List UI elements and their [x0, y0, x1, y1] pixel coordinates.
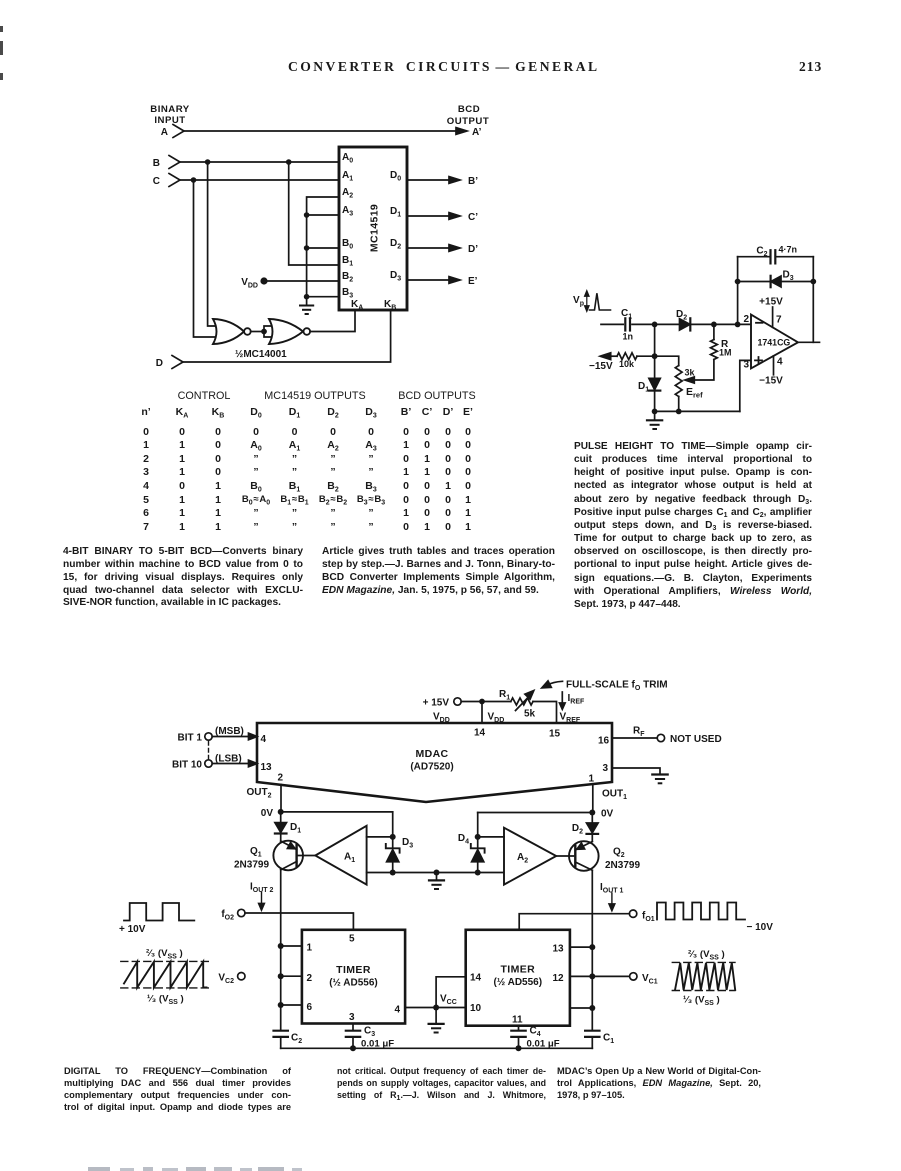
- label IOUT2: [250, 882, 274, 911]
- svg-text:A2: A2: [342, 187, 353, 200]
- svg-text:INPUT: INPUT: [154, 115, 185, 126]
- svg-text:D1: D1: [390, 206, 401, 219]
- svg-text:D3: D3: [402, 837, 413, 850]
- svg-text:A’: A’: [472, 127, 482, 138]
- wire pin 14 to VCC: [436, 977, 466, 1008]
- svg-text:Q2: Q2: [613, 847, 625, 860]
- IC U2 MDAC AD7520: [257, 723, 612, 802]
- svg-text:OUT1: OUT1: [602, 789, 627, 802]
- svg-text:4: 4: [395, 1005, 401, 1016]
- svg-text:fO1: fO1: [642, 911, 655, 924]
- feedback right vertical wire: [812, 257, 814, 343]
- svg-text:½MC14001: ½MC14001: [235, 349, 287, 360]
- terminal +15V: [423, 698, 462, 709]
- IC U4 TIMER 1/2 AD556: [466, 930, 570, 1026]
- node 0V right: [589, 809, 613, 820]
- wire pin 1 to 0V node: [592, 784, 594, 813]
- svg-text:11: 11: [512, 1015, 523, 1026]
- terminal BIT 10: [172, 760, 212, 771]
- waveform sawtooth VC2: [121, 961, 210, 988]
- capacitor C2: [274, 1031, 303, 1049]
- wire timer2 output to fO1: [519, 914, 629, 930]
- wire BIT10 to pin 13: [212, 760, 257, 767]
- wire B3 pin: [304, 294, 339, 300]
- op-amp U1 1741CG: [751, 315, 798, 369]
- terminal fO1: [629, 910, 654, 923]
- wire B vertical to gate input: [208, 162, 220, 326]
- feedback top wire: [738, 256, 814, 258]
- svg-text:BCD: BCD: [458, 104, 480, 115]
- wire 0V right to D4 branch: [478, 812, 593, 814]
- pin 6: [281, 1002, 313, 1013]
- svg-text:(MSB): (MSB): [215, 726, 244, 737]
- wire pin 3 to ground: [612, 768, 660, 774]
- +15V supply: [759, 297, 783, 328]
- capacitor C1 1n: [621, 308, 633, 342]
- -15V supply: [759, 356, 783, 387]
- svg-text:RF: RF: [633, 726, 645, 739]
- svg-text:4·7n: 4·7n: [779, 245, 798, 255]
- svg-text:1741CG: 1741CG: [758, 338, 791, 348]
- svg-text:NOT USED: NOT USED: [670, 734, 722, 745]
- svg-text:IREF: IREF: [568, 693, 586, 706]
- ground symbol: [300, 297, 313, 314]
- capacitor C1: [585, 1031, 614, 1049]
- svg-text:OUTPUT: OUTPUT: [447, 116, 489, 127]
- wire pin 2 to 0V node: [280, 785, 282, 812]
- wire A1 lower input / gnd bus: [367, 870, 504, 876]
- NOR gate G2: [269, 319, 310, 344]
- svg-text:10k: 10k: [619, 359, 635, 369]
- wire B to A0 pin: [180, 161, 339, 163]
- svg-text:D3: D3: [783, 270, 794, 283]
- svg-text:TIMER: TIMER: [500, 964, 535, 976]
- svg-text:2N3799: 2N3799: [234, 860, 269, 871]
- schematic: digital to frequency converter: [110, 660, 800, 1060]
- label BCD OUTPUT: [447, 104, 489, 127]
- bottom rail: [281, 1047, 593, 1049]
- ground symbol VCC: [429, 1008, 444, 1033]
- junction dot on D1 branch: [652, 353, 658, 359]
- svg-text:2: 2: [307, 973, 313, 984]
- schematic: pulse height to time opamp circuit: [560, 230, 845, 445]
- wire B to B1 pin: [289, 162, 339, 265]
- svg-text:VDD: VDD: [488, 712, 505, 725]
- wire C vertical to gate input: [194, 180, 221, 337]
- svg-text:2N3799: 2N3799: [605, 860, 640, 871]
- svg-text:C1: C1: [621, 308, 632, 321]
- terminal BIT 1: [178, 733, 213, 744]
- VDD terminal: [241, 277, 267, 290]
- label IOUT1: [600, 882, 624, 911]
- svg-text:C3: C3: [364, 1026, 375, 1039]
- lower right pin wire: [570, 1007, 592, 1009]
- svg-text:− 10V: − 10V: [747, 922, 774, 933]
- svg-text:13: 13: [261, 762, 273, 773]
- wire BIT1 to pin 4: [212, 733, 257, 740]
- svg-text:¹⁄₃ (VSS ): ¹⁄₃ (VSS ): [147, 994, 184, 1007]
- svg-text:+15V: +15V: [759, 297, 783, 308]
- op-amp A2: [504, 828, 556, 885]
- input terminal B: [153, 156, 180, 170]
- svg-text:¹⁄₃ (VSS ): ¹⁄₃ (VSS ): [683, 995, 720, 1008]
- svg-text:VC1: VC1: [642, 973, 658, 986]
- svg-text:BIT 1: BIT 1: [178, 733, 203, 744]
- svg-text:5k: 5k: [524, 709, 536, 720]
- feedback diode wire: [735, 279, 817, 285]
- terminal VC2: [218, 973, 245, 986]
- svg-text:TIMER: TIMER: [336, 964, 371, 976]
- terminal VC1: [592, 973, 657, 986]
- svg-text:C4: C4: [530, 1026, 541, 1039]
- svg-text:VC2: VC2: [218, 973, 234, 986]
- input terminal A: [161, 125, 184, 139]
- svg-text:VDD: VDD: [241, 277, 258, 290]
- pin 12: [553, 973, 593, 984]
- svg-text:13: 13: [553, 944, 565, 955]
- wire A3 pin: [304, 212, 339, 218]
- resistor R 1M: [711, 324, 732, 359]
- junction node D1 tap: [652, 322, 658, 328]
- wire Q1 base to A1: [298, 855, 315, 857]
- svg-text:D2: D2: [390, 238, 401, 251]
- svg-text:(½ AD556): (½ AD556): [494, 977, 543, 988]
- wire node to D1: [654, 324, 656, 378]
- svg-text:VCC: VCC: [440, 994, 457, 1007]
- svg-text:3k: 3k: [685, 368, 696, 378]
- potentiometer R1 5k: [499, 689, 536, 720]
- svg-text:²⁄₃ (VSS ): ²⁄₃ (VSS ): [688, 949, 725, 962]
- svg-text:(AD7520): (AD7520): [410, 762, 453, 773]
- transistor Q1 2N3799: [234, 841, 303, 871]
- svg-text:VREF: VREF: [560, 712, 581, 725]
- svg-text:D4: D4: [458, 833, 469, 846]
- svg-text:B: B: [153, 158, 160, 169]
- svg-text:4: 4: [777, 357, 783, 368]
- terminal fO2: [221, 909, 245, 922]
- ground symbol pin 3: [652, 775, 667, 784]
- svg-text:C: C: [153, 176, 160, 187]
- svg-text:D3: D3: [390, 270, 401, 283]
- svg-text:4: 4: [261, 734, 267, 745]
- svg-text:15: 15: [549, 729, 561, 740]
- svg-text:0V: 0V: [601, 809, 614, 820]
- diode D2: [572, 813, 598, 842]
- svg-text:D0: D0: [390, 170, 401, 183]
- svg-text:B0: B0: [342, 238, 353, 251]
- caption: pulse height to time, right column: [574, 440, 812, 611]
- wire R to pot wiper arrow: [685, 360, 714, 384]
- wire D1 output: [407, 212, 478, 223]
- svg-text:+ 10V: + 10V: [119, 924, 146, 935]
- svg-text:Vp: Vp: [573, 295, 584, 308]
- svg-text:MC14519: MC14519: [369, 204, 381, 252]
- junction node R tap: [711, 322, 717, 328]
- wire A to A': [184, 130, 456, 132]
- svg-text:+ 15V: + 15V: [423, 698, 450, 709]
- svg-text:16: 16: [598, 736, 610, 747]
- svg-text:OUT2: OUT2: [247, 787, 272, 800]
- svg-text:2: 2: [278, 773, 284, 784]
- svg-text:MDAC: MDAC: [415, 748, 448, 760]
- scan edge artifact marks on left margin: [0, 26, 3, 32]
- diode D1: [275, 812, 301, 841]
- wire G1 to G2: [251, 326, 272, 337]
- svg-text:(½ AD556): (½ AD556): [329, 978, 378, 989]
- pin 1: [281, 943, 313, 954]
- svg-text:FULL-SCALE fO TRIM: FULL-SCALE fO TRIM: [566, 680, 668, 693]
- svg-text:3: 3: [603, 763, 609, 774]
- svg-text:C1: C1: [603, 1033, 614, 1046]
- svg-text:C2: C2: [291, 1033, 302, 1046]
- svg-text:VDD: VDD: [433, 712, 450, 725]
- pin 2 OUT2: [247, 773, 284, 800]
- pin 11: [512, 1015, 523, 1030]
- wire A2 pin to ground bus: [307, 197, 339, 297]
- pin 3: [349, 1012, 355, 1030]
- junction dot B-gate tap: [286, 159, 292, 165]
- node 0V left: [261, 808, 284, 819]
- label BINARY INPUT: [150, 104, 190, 126]
- wire input to C1: [601, 323, 623, 325]
- svg-text:A3: A3: [342, 205, 353, 218]
- caption: 4-bit binary to 5-bit BCD, column 1: [63, 546, 303, 610]
- svg-text:BIT 10: BIT 10: [172, 760, 202, 771]
- page header title: [288, 59, 608, 75]
- label FULL-SCALE fo TRIM: [542, 680, 668, 693]
- svg-text:B3: B3: [342, 287, 353, 300]
- svg-text:5: 5: [349, 934, 355, 945]
- svg-text:fO2: fO2: [221, 909, 234, 922]
- wire C to A1 pin: [180, 179, 339, 181]
- input pulse waveform: [590, 293, 611, 310]
- pulse amplitude arrow: [585, 291, 589, 310]
- waveform sawtooth VC1: [672, 962, 735, 990]
- capacitor C4 0.01uF: [511, 1026, 559, 1052]
- diode D2: [676, 309, 690, 331]
- feedback left vertical wire: [737, 257, 739, 325]
- node VCC: [433, 994, 457, 1011]
- svg-text:−15V: −15V: [589, 361, 613, 372]
- wire A2 output to Q2 base: [556, 855, 573, 857]
- caption: digital to frequency, column 3: [557, 1065, 761, 1101]
- svg-text:KA: KA: [351, 299, 363, 312]
- NOR gate G1: [213, 319, 251, 344]
- faint bleed-through marks at bottom edge: [88, 1167, 110, 1171]
- IC U1 MC14519: [339, 147, 407, 310]
- svg-text:3: 3: [349, 1012, 355, 1023]
- wire VDD to B2 pin: [264, 280, 339, 282]
- svg-text:14: 14: [474, 728, 486, 739]
- arrow IREF: [560, 692, 586, 709]
- potentiometer 3k Eref: [675, 366, 703, 412]
- svg-text:B2: B2: [342, 271, 353, 284]
- ground symbol: [647, 411, 662, 429]
- pin 2: [281, 973, 313, 984]
- diode D1: [638, 378, 660, 411]
- caption: 4-bit binary, column 2: [322, 546, 555, 597]
- pin 1 OUT1: [589, 774, 628, 802]
- svg-text:B’: B’: [468, 176, 478, 187]
- svg-text:A0: A0: [342, 152, 353, 165]
- caption: digital to frequency, column 2: [337, 1065, 546, 1101]
- diode D3: [771, 270, 794, 288]
- ground rail: [652, 409, 740, 415]
- wire G2 output to KA: [310, 310, 355, 332]
- svg-text:10: 10: [470, 1003, 482, 1014]
- svg-text:C2: C2: [756, 246, 767, 259]
- capacitor C3 0.01uF: [346, 1026, 394, 1052]
- junction dot B1 tap: [205, 159, 211, 165]
- wire D to KB: [183, 310, 391, 362]
- svg-text:12: 12: [553, 973, 565, 984]
- wire fO2 to timer1 pin 5: [245, 913, 353, 930]
- svg-text:3: 3: [743, 360, 749, 371]
- svg-text:A: A: [161, 127, 168, 138]
- wire Q2 collector rail: [589, 870, 595, 1030]
- capacitor C2 4.7n: [756, 245, 797, 264]
- svg-text:D1: D1: [638, 381, 649, 394]
- truth table: [0, 0, 1, 1]
- svg-text:6: 6: [307, 1002, 313, 1013]
- junction node feedback tap: [735, 322, 741, 328]
- svg-text:²⁄₃ (VSS ): ²⁄₃ (VSS ): [146, 948, 183, 961]
- svg-text:B1: B1: [342, 255, 353, 268]
- svg-text:7: 7: [776, 315, 782, 326]
- wire A2 upper input: [478, 836, 504, 838]
- svg-text:C’: C’: [468, 212, 478, 223]
- svg-text:1n: 1n: [623, 332, 634, 342]
- svg-text:A1: A1: [342, 170, 353, 183]
- pin 15 VREF: [549, 712, 581, 740]
- svg-text:D2: D2: [572, 823, 583, 836]
- dashed bus between bits: [208, 742, 210, 760]
- wire R1 to pin 15: [533, 702, 557, 724]
- junction dot C-gate tap: [191, 177, 197, 183]
- ground symbol mid: [429, 873, 444, 890]
- svg-text:D: D: [156, 358, 163, 369]
- input terminal C: [153, 174, 180, 188]
- diode D3 clamp: [386, 812, 413, 873]
- wire D0 output: [407, 176, 478, 187]
- svg-text:0V: 0V: [261, 808, 274, 819]
- wire C1 to D2: [632, 323, 680, 325]
- svg-text:1: 1: [589, 774, 595, 785]
- svg-text:D’: D’: [468, 244, 478, 255]
- pin 4: [395, 1005, 437, 1016]
- resistor 10k: [609, 353, 637, 369]
- svg-text:E’: E’: [468, 276, 478, 287]
- svg-text:Q1: Q1: [250, 846, 262, 859]
- wire D3 output: [407, 276, 478, 287]
- -15V arrow terminal: [589, 353, 613, 372]
- wire pin 16 to RF terminal: [612, 726, 665, 742]
- svg-text:2: 2: [743, 314, 749, 325]
- waveform square -10V: [657, 903, 773, 934]
- arrow output A': [456, 127, 482, 138]
- wire 0V left to D3 branch: [281, 811, 393, 813]
- wire D2 output: [407, 244, 478, 255]
- pin 14 VDD: [474, 712, 504, 739]
- svg-text:1M: 1M: [719, 348, 732, 358]
- caption: digital to frequency, column 1: [64, 1065, 291, 1113]
- pin 13: [553, 944, 593, 955]
- transistor Q2 2N3799: [569, 841, 640, 871]
- wire B0 pin: [304, 245, 339, 251]
- svg-text:−15V: −15V: [759, 376, 783, 387]
- waveform square +10V: [119, 903, 194, 935]
- svg-text:Eref: Eref: [686, 386, 703, 400]
- wire A1 upper input: [367, 836, 393, 838]
- wire VCC to pin 10: [436, 1007, 466, 1009]
- svg-text:D1: D1: [290, 822, 301, 835]
- wire +15V to pin 14: [461, 699, 511, 723]
- input terminal D: [156, 356, 183, 370]
- svg-text:R1: R1: [499, 689, 510, 702]
- page number 213: [799, 59, 822, 75]
- IC U3 TIMER 1/2 AD556: [302, 930, 405, 1024]
- wire ground rail to noninverting input: [740, 360, 751, 411]
- wire Q1 collector rail: [278, 870, 284, 1030]
- wire 10k to pot top: [637, 356, 679, 365]
- output wire: [798, 341, 820, 343]
- svg-text:14: 14: [470, 973, 482, 984]
- op-amp A1: [315, 826, 366, 885]
- svg-text:1: 1: [307, 943, 313, 954]
- svg-text:BINARY: BINARY: [150, 104, 190, 115]
- wire D2 to opamp inverting input: [690, 323, 751, 325]
- schematic: 4-bit binary to 5-bit BCD converter: [130, 88, 520, 380]
- diode D4 clamp: [458, 813, 485, 873]
